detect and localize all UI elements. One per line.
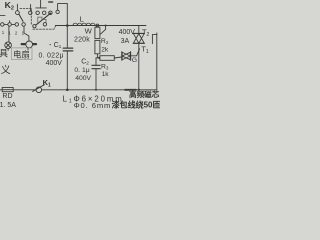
terminal digit 2	[15, 30, 18, 35]
switch K2 pole A blade arm	[19, 14, 23, 21]
wire diac to gate	[131, 49, 140, 56]
switch K1 blade	[33, 85, 45, 92]
bar joining upper contacts 2-3	[36, 7, 47, 9]
label R2	[101, 38, 109, 45]
wiper junction dot	[105, 25, 107, 27]
junction dot C2 bottom	[95, 89, 97, 91]
upper contact row circle 3	[42, 11, 46, 15]
resistor R3 body (horizontal)	[100, 56, 114, 61]
diac left bar	[121, 52, 123, 60]
upper contact row circle 2	[36, 11, 40, 15]
lamp X strokes	[6, 43, 11, 48]
label T1	[141, 45, 149, 55]
label electric fan	[13, 50, 30, 60]
lamp symbol circle	[5, 42, 12, 49]
motor circle	[26, 41, 33, 48]
resistor R2 body	[95, 40, 100, 53]
wire stub above contact 1	[30, 5, 32, 11]
label G	[132, 57, 137, 64]
svg-text:220k: 220k	[74, 37, 90, 44]
mechanical linkage dash (left cropped)	[0, 15, 5, 17]
fixed contact row (lower) circle 1	[1, 23, 5, 27]
capacitor C1 top plate	[63, 47, 73, 49]
svg-text:L: L	[80, 15, 84, 24]
fixed contact row (lower) circle 2	[8, 23, 12, 27]
svg-text:义: 义	[1, 65, 11, 77]
svg-text:0. 022μ: 0. 022μ	[39, 52, 64, 59]
cropped character below	[1, 65, 11, 77]
staircase wire near contacts	[38, 17, 46, 22]
svg-text:3A: 3A	[121, 38, 130, 45]
fuse RD body	[2, 88, 13, 92]
lamp bottom stub	[7, 49, 9, 51]
svg-text:400V: 400V	[46, 60, 63, 67]
mechanical linkage dashes pole A to pole B	[20, 8, 31, 25]
motor right brush tick	[33, 43, 36, 45]
switch K1 contact circle	[36, 87, 42, 93]
fixed contact row (lower) circle 3	[15, 23, 19, 27]
label 1.5A	[0, 102, 16, 109]
junction dot C1/contact5	[66, 24, 69, 27]
annotation line 1 bold: high frequency core	[129, 89, 160, 99]
bottom rail K1 to right	[42, 89, 157, 91]
label C1	[54, 42, 62, 50]
svg-text:电扇: 电扇	[13, 50, 30, 60]
cropped text fragment top	[49, 1, 53, 3]
switch K2 pole C blade arm	[36, 14, 49, 25]
right edge wire	[156, 33, 158, 90]
diac triangle right-pointing	[122, 52, 130, 59]
ink speck	[50, 44, 51, 45]
motor left brush tick	[22, 43, 25, 45]
label 220k	[74, 37, 90, 44]
wire from K2 label to pole A	[16, 4, 18, 10]
blade head blob	[49, 13, 51, 15]
triac T1 bottom wire	[138, 43, 140, 89]
junction dot C1 bottom	[66, 89, 69, 92]
label 1k	[102, 71, 110, 78]
junction dot T1 bottom	[138, 89, 140, 91]
triac triangle down	[133, 34, 144, 44]
triac bottom bar	[133, 42, 144, 44]
motor bottom stub	[27, 48, 29, 50]
svg-text:Φ0. 6mm: Φ0. 6mm	[74, 101, 112, 110]
upper contact 5 circle	[56, 10, 59, 13]
link wire contact1-contact2	[4, 24, 8, 26]
svg-text:高频磁芯: 高频磁芯	[129, 89, 160, 99]
upper contact row circle 1	[29, 11, 33, 15]
label 400V C2	[75, 75, 91, 82]
capacitor C2 top plate	[92, 64, 100, 66]
label R3	[101, 63, 109, 70]
stem up from bar	[40, 0, 42, 8]
label 400V C1	[46, 60, 63, 67]
capacitor C2 bottom plate	[92, 68, 100, 70]
wire R3 to diac	[114, 57, 121, 58]
fixed contact row (lower) circle 4	[22, 23, 26, 27]
right edge top hook	[152, 35, 156, 44]
label 2k	[101, 47, 109, 54]
diac triangle left-pointing	[122, 52, 130, 59]
wire contact5 up and over to main rail	[58, 4, 68, 25]
triac T2 top wire	[138, 26, 140, 34]
label 0.022u	[39, 52, 64, 59]
stub above contact 2	[9, 21, 11, 23]
svg-text:G: G	[132, 57, 137, 64]
main top rail	[55, 25, 146, 27]
label 400V triac	[119, 29, 136, 36]
label K1	[43, 78, 51, 88]
upper contact row circle 4	[49, 11, 53, 15]
inductor L bumps	[73, 23, 95, 25]
svg-text:400V: 400V	[119, 29, 136, 36]
junction R2/R3/C2	[97, 57, 100, 59]
thick rail segment near T1 junction	[125, 89, 136, 91]
svg-text:0. 1μ: 0. 1μ	[74, 67, 89, 74]
svg-text:2k: 2k	[101, 47, 109, 54]
switch K2 pole A pivot contact	[16, 11, 20, 15]
svg-text:具: 具	[0, 49, 8, 59]
wire contact2 down to lamp	[8, 26, 10, 42]
annotation line 2: wire spec	[74, 101, 112, 110]
potentiometer W body	[95, 27, 100, 38]
svg-text:RD: RD	[2, 93, 12, 100]
bottom rail left stub	[0, 89, 2, 91]
wire C2 to bottom rail	[95, 69, 97, 90]
label RD	[2, 93, 12, 100]
capacitor C1 top wire	[66, 26, 68, 48]
svg-text:1k: 1k	[102, 71, 110, 78]
svg-text:漆包线绕50匝: 漆包线绕50匝	[112, 100, 160, 110]
switch K2 pole C pivot	[33, 25, 36, 28]
capacitor C1 bottom wire	[66, 51, 68, 90]
label T2	[142, 28, 150, 38]
terminal digit 1	[22, 30, 25, 35]
wiper wire and arrow	[100, 26, 105, 35]
terminal digit 1	[2, 30, 5, 35]
terminal digit 1	[8, 30, 11, 35]
contact circle right of pole C	[43, 23, 46, 26]
triac triangle up	[133, 34, 144, 44]
wire R2 to junction	[96, 54, 98, 58]
wire contact4 down to motor	[24, 26, 29, 41]
svg-text:400V: 400V	[75, 75, 91, 82]
svg-text:W: W	[85, 26, 93, 35]
triac top bar	[133, 32, 144, 34]
svg-text:1. 5A: 1. 5A	[0, 102, 16, 109]
fuse RD through line	[2, 89, 13, 91]
annotation line 1: L1 spec	[63, 94, 124, 104]
mechanical linkage dashes to pole C arm	[33, 26, 55, 29]
label W	[85, 26, 93, 35]
link wire contact2-contact3	[12, 24, 15, 26]
wire junction to C2	[96, 58, 97, 65]
label L	[80, 15, 84, 24]
label lamp fixture	[0, 49, 8, 59]
diac right bar	[130, 52, 132, 60]
junction dot R2/R3/C2	[98, 57, 100, 59]
bottom rail fuse to K1	[13, 89, 36, 91]
box around fan label	[11, 48, 32, 60]
potentiometer W top terminal circle	[96, 24, 99, 27]
capacitor C1 bottom plate	[63, 50, 73, 52]
label 0.1u	[74, 67, 89, 74]
annotation line 2 bold: enameled wire turns	[112, 100, 161, 110]
label 3A	[121, 38, 130, 45]
label C2	[81, 58, 89, 66]
label K2	[5, 0, 14, 12]
